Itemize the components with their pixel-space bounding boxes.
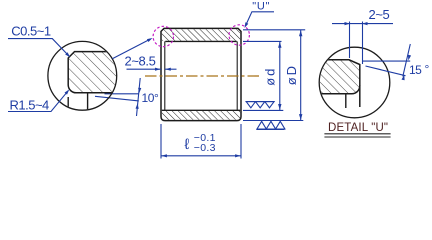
bore bottom line	[162, 109, 240, 111]
10 deg angle: sloped ray (taper surface extension)	[95, 96, 139, 101]
svg-text:ℓ: ℓ	[185, 136, 190, 153]
dim od: extension line bottom	[243, 109, 283, 111]
hatch of bottom wall band	[162, 111, 240, 120]
dim length: extension lines	[160, 124, 162, 159]
10 deg angle: horizontal ray (bore surface extension)	[105, 93, 139, 95]
hatch of top wall band	[162, 29, 240, 41]
dim od: extension line top	[243, 40, 282, 42]
svg-text:"U": "U"	[252, 1, 270, 13]
U detail: hatched wall cross-section	[318, 60, 360, 108]
left detail: hatched wall cross-section	[68, 52, 120, 111]
dim oD: extension line bottom	[243, 120, 303, 122]
surface finish symbol (outer surface)	[256, 121, 285, 129]
left detail: bore line extension	[76, 92, 116, 94]
U detail: taper edge line	[345, 94, 347, 108]
surface finish symbol (bore)	[246, 102, 275, 108]
detail marker circle "U" (top-right corner)	[229, 25, 249, 45]
U detail: boundary circle	[319, 47, 390, 118]
bore top line	[165, 40, 236, 42]
dim 2~5 dimension line with arrows	[332, 23, 393, 25]
svg-text:DETAIL "U": DETAIL "U"	[328, 122, 388, 134]
"U" leader line	[245, 12, 274, 26]
left detail: boundary circle	[48, 41, 117, 110]
left detail: taper edge line	[87, 93, 89, 111]
svg-text:ød: ød	[263, 67, 278, 86]
svg-text:C0.5~1: C0.5~1	[11, 23, 51, 38]
left taper edge line	[164, 41, 166, 110]
dim oD: dimension line with arrows	[300, 30, 302, 121]
dim 2~5 extension lines	[349, 22, 351, 59]
dim oD: extension line top	[243, 29, 305, 31]
dim length: dimension line with arrows	[161, 155, 241, 157]
U detail: end face lower part	[359, 85, 361, 107]
15 deg: horizontal ray	[363, 60, 410, 62]
10 deg angle: arc line with arrows	[137, 78, 141, 116]
svg-text:°: °	[425, 62, 430, 76]
detail marker circle (top-left corner)	[153, 26, 173, 46]
dim od: dimension line with arrows	[279, 41, 281, 110]
15 deg: sloped ray (taper extension)	[366, 66, 406, 76]
svg-text:15: 15	[409, 63, 422, 77]
U detail: bore line extension	[335, 93, 352, 95]
right taper edge line	[236, 41, 238, 110]
15 deg: arc line with arrows	[403, 44, 411, 77]
leader C0.5~1	[8, 39, 69, 56]
svg-text:10°: 10°	[142, 91, 160, 105]
svg-text:øD: øD	[284, 64, 299, 85]
svg-text:−0.3: −0.3	[194, 142, 216, 154]
centerline (axis)	[145, 75, 262, 77]
svg-text:2~5: 2~5	[369, 7, 390, 22]
leader R1.5~4	[8, 91, 68, 111]
bushing outer outline (section view)	[161, 28, 241, 120]
DETAIL "U" double underline	[324, 133, 390, 135]
svg-text:2~8.5: 2~8.5	[125, 53, 156, 68]
leader from left detail to marker circle	[112, 39, 150, 59]
left detail: end face lower stub	[67, 97, 69, 109]
dimension 2~8.5 lines and arrows	[127, 68, 162, 70]
svg-text:R1.5~4: R1.5~4	[10, 98, 50, 113]
